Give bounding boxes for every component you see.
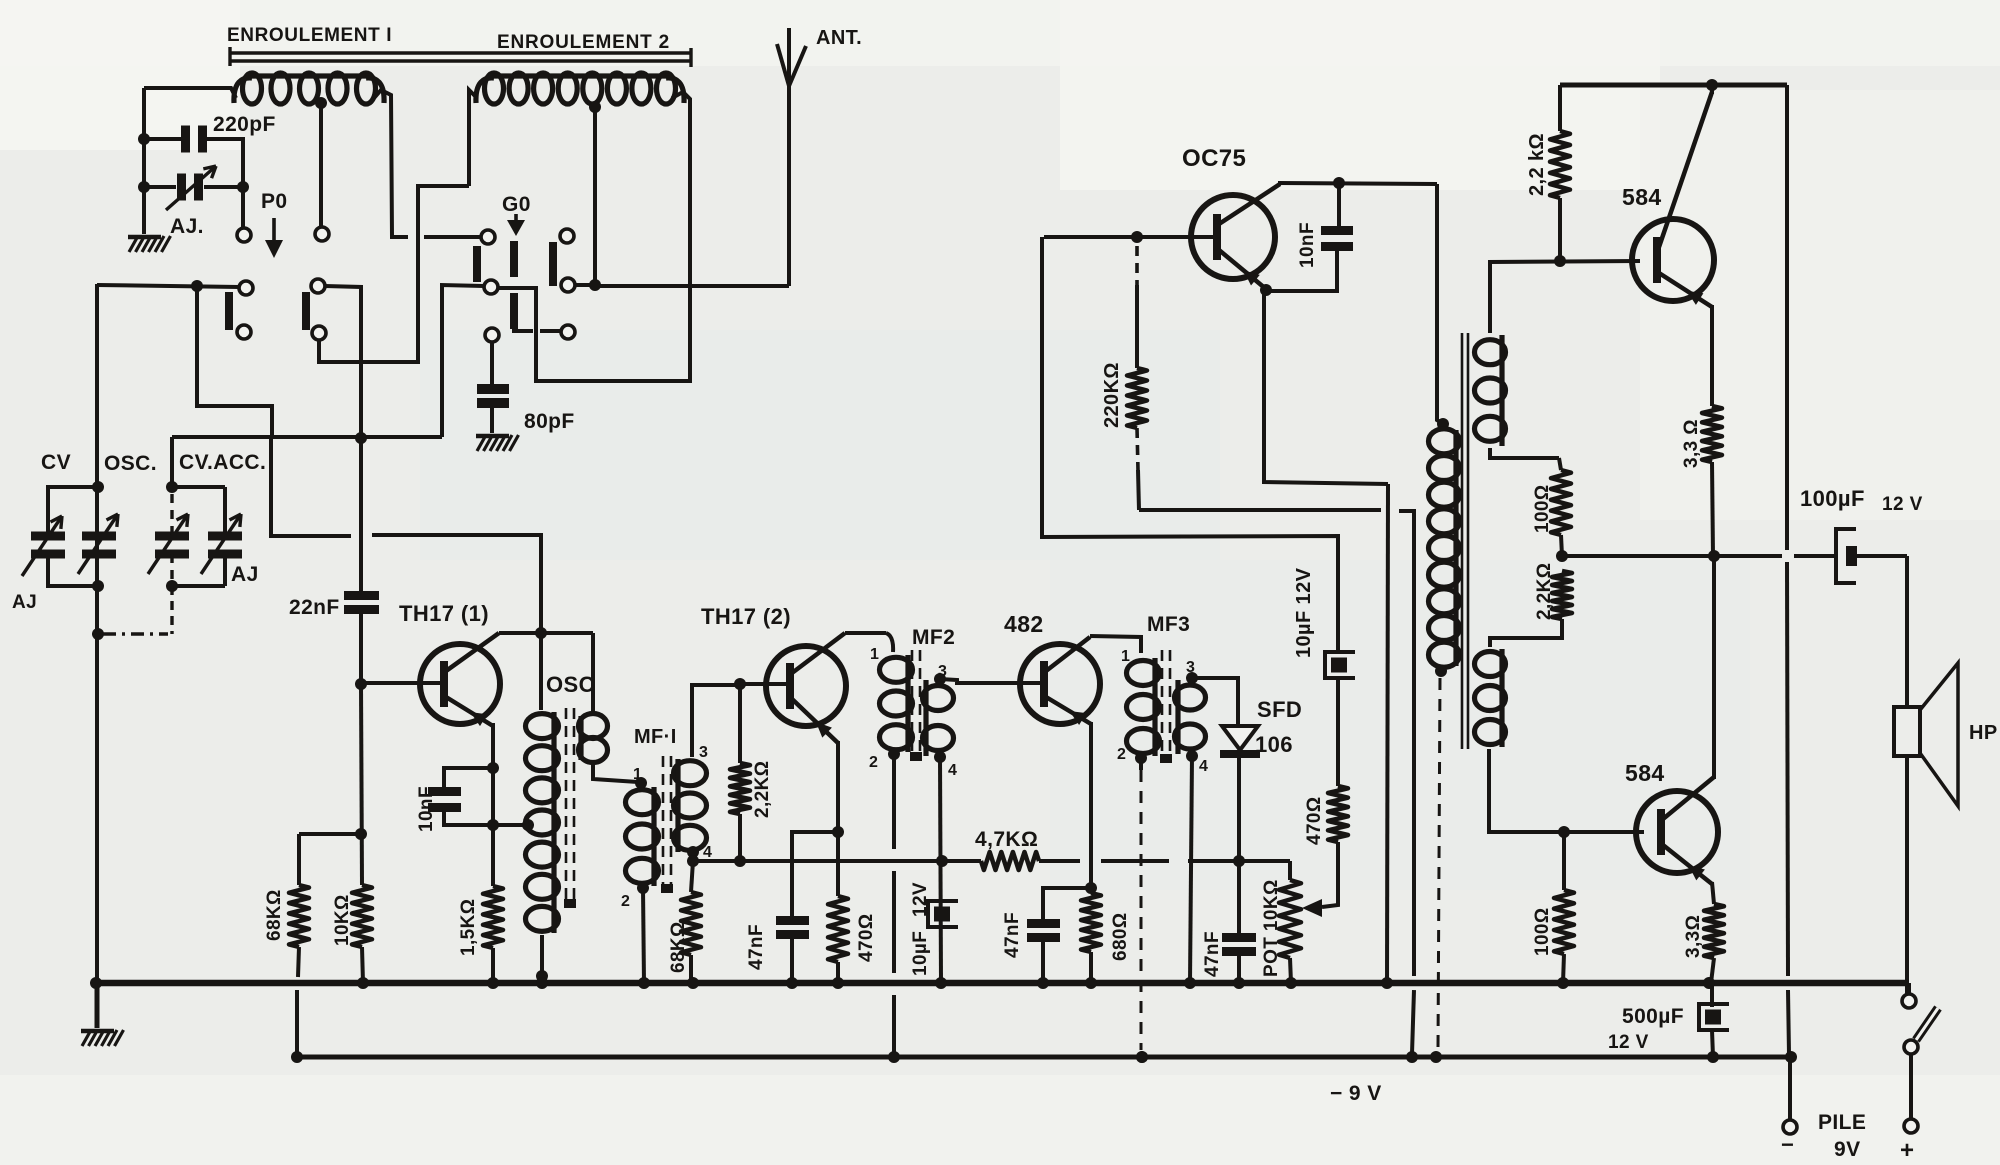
- svg-text:4: 4: [703, 844, 712, 861]
- ferrite rod: [229, 51, 690, 55]
- svg-text:106: 106: [1255, 732, 1293, 757]
- junctions rail2: [291, 1051, 303, 1063]
- wire 22nF to base: [359, 614, 363, 684]
- svg-text:470Ω: 470Ω: [1304, 796, 1325, 845]
- resistor 4,7K: [981, 852, 1039, 870]
- switch GO contact 1: [481, 230, 495, 244]
- resistor 3,3 (top): [1702, 406, 1722, 462]
- svg-text:12V: 12V: [910, 882, 931, 917]
- switch GO contact 3: [484, 280, 498, 294]
- terminal switch pivot: [1904, 1040, 1918, 1054]
- terminal PILE plus: [1904, 1119, 1918, 1133]
- switch GO contact 4: [561, 278, 575, 292]
- wire TH17(2) collector: [845, 631, 886, 635]
- wire 482 emitter: [1089, 722, 1093, 888]
- arrow CV: [22, 516, 62, 576]
- wire OSC sec to MF1 pin1: [593, 762, 637, 782]
- variable capacitor OSC: [82, 532, 116, 541]
- svg-text:MF2: MF2: [912, 626, 955, 649]
- wire coil L1 right end: [374, 90, 408, 237]
- svg-text:MF·I: MF·I: [634, 726, 677, 748]
- wire OC75 collector top: [1278, 183, 1437, 184]
- svg-text:4,7KΩ: 4,7KΩ: [975, 828, 1038, 851]
- resistor 220K: [1135, 246, 1139, 285]
- switch PO contact 3: [239, 281, 253, 295]
- wire rail1 (ground): [96, 980, 1909, 987]
- resistor 470 (1): [836, 832, 840, 896]
- transformer MF1 core: [662, 756, 665, 888]
- wire 584t collector: [1710, 85, 1714, 94]
- resistor 10K: [361, 684, 362, 885]
- coil L2 ENROULEMENT 2: [485, 73, 504, 104]
- switch GO contact 2: [560, 229, 574, 243]
- transformer driver primary: [1437, 418, 1449, 430]
- wire TH17(1) base: [361, 681, 441, 685]
- svg-text:− 9 V: − 9 V: [1330, 1082, 1382, 1105]
- svg-text:SFD: SFD: [1257, 697, 1302, 722]
- antenna riser: [787, 28, 791, 286]
- wire TH17(2) emitter: [836, 741, 840, 832]
- wire OC75 base: [1044, 235, 1214, 239]
- svg-text:MF3: MF3: [1147, 613, 1190, 636]
- wire sec-bottom to 584(2) base: [1489, 749, 1644, 832]
- ground (main rail): [95, 983, 100, 1028]
- wire MF2 pin3 to 482 base: [934, 673, 946, 685]
- switch GO bar right: [549, 242, 557, 286]
- wire CV.ACC bracket: [170, 485, 225, 489]
- svg-text:12 V: 12 V: [1608, 1032, 1649, 1053]
- wire collector to MF2 pin1: [886, 633, 893, 652]
- transistor OC75: [1191, 195, 1275, 279]
- wire CV.ACC riser: [170, 437, 174, 489]
- transformer OSC core: [565, 708, 568, 903]
- wire MF3 pin2 dashline: [1135, 752, 1147, 764]
- svg-text:2,2KΩ: 2,2KΩ: [752, 761, 773, 818]
- capacitor 500uF 12V: [1710, 983, 1714, 1007]
- svg-text:TH17 (1): TH17 (1): [399, 601, 489, 626]
- wire to PILE minus: [1788, 1054, 1792, 1120]
- transformer OSC primary: [526, 714, 559, 739]
- resistor 470 (2): [1328, 786, 1348, 842]
- wire 220pF right: [206, 137, 245, 141]
- svg-text:470Ω: 470Ω: [856, 913, 877, 962]
- switch GO bar left: [473, 246, 481, 282]
- wire 482 collector: [1090, 636, 1141, 653]
- resistor 100 (1): [1559, 458, 1561, 470]
- svg-text:680Ω: 680Ω: [1110, 912, 1131, 961]
- capacitor 47nF (1): [776, 916, 809, 925]
- wire 584b emitter: [1712, 882, 1714, 904]
- capacitor 10uF 12V (agc): [1325, 652, 1355, 678]
- svg-text:584: 584: [1625, 760, 1665, 786]
- svg-text:HP: HP: [1969, 722, 1998, 744]
- svg-text:3,3Ω: 3,3Ω: [1683, 915, 1704, 958]
- transistor TH17(2): [766, 646, 846, 726]
- svg-text:9V: 9V: [1834, 1138, 1861, 1161]
- svg-text:10nF: 10nF: [1297, 222, 1318, 268]
- svg-text:68KΩ: 68KΩ: [264, 889, 285, 941]
- terminal PILE minus: [1783, 1120, 1797, 1134]
- svg-text:4: 4: [1199, 758, 1208, 775]
- svg-text:2,2 kΩ: 2,2 kΩ: [1526, 133, 1548, 196]
- switch blade: [1916, 1008, 1938, 1040]
- capacitor 80pF: [477, 384, 509, 394]
- wire top rail -9V: [1560, 83, 1787, 88]
- svg-text:AJ: AJ: [231, 563, 259, 586]
- wire emitter to rail1: [1387, 484, 1388, 983]
- wire 220K to -9V: [1139, 508, 1381, 512]
- switch GO contact 5: [485, 328, 499, 342]
- wire ground stem left: [142, 88, 146, 234]
- wire collector to driver primary: [1437, 184, 1443, 424]
- wire -9V feed: [1785, 85, 1789, 550]
- wire sec-top bottom to 100ohm: [1490, 448, 1559, 458]
- wire MF1 pin3 to TH17(2) base: [692, 685, 737, 757]
- arrow CV.ACC: [148, 514, 188, 574]
- svg-text:ENROULEMENT I: ENROULEMENT I: [227, 25, 392, 46]
- wire GO mid-right to node: [576, 283, 597, 287]
- svg-text:68KΩ: 68KΩ: [668, 921, 689, 973]
- wire mid-rail to 584(2) collector: [1712, 556, 1716, 779]
- switch GO contact 6: [561, 325, 575, 339]
- wire main tuning line: [95, 284, 99, 983]
- capacitor 47nF (2): [1043, 888, 1091, 919]
- svg-text:TH17 (2): TH17 (2): [701, 604, 791, 629]
- svg-text:12 V: 12 V: [1882, 494, 1923, 515]
- trimmer AJ.: [177, 174, 186, 201]
- switch PO bar left: [225, 292, 233, 330]
- wire node A horizontal: [172, 435, 442, 439]
- svg-text:100Ω: 100Ω: [1532, 907, 1553, 956]
- wire PO mid-right down: [325, 286, 361, 437]
- wire rail2 (-9V): [297, 1055, 1793, 1060]
- wire 10uF to 470: [1336, 678, 1340, 786]
- wire coil L1 left end to ground line: [144, 88, 236, 98]
- junctions rail1: [90, 977, 102, 989]
- wire 10nF top bracket: [444, 768, 493, 787]
- switch GO stub right-bottom: [540, 329, 560, 333]
- wire OC75 emitter: [1260, 284, 1272, 296]
- svg-text:AJ: AJ: [12, 592, 37, 613]
- transistor TH17(1): [420, 644, 500, 724]
- resistor 2,2k (top): [1558, 85, 1562, 131]
- wire AJ left: [144, 185, 176, 189]
- wire MF2 pin2 down: [888, 748, 900, 760]
- wire TH17(1) emitter: [491, 723, 495, 886]
- coil L1 ENROULEMENT 1: [243, 73, 262, 104]
- transistor 482: [1020, 644, 1100, 724]
- wire MF1 pin4 down: [687, 846, 699, 858]
- transistor 584 top: [1632, 219, 1714, 301]
- switch GO bar mid: [510, 241, 518, 277]
- wire driver primary bottom: [1435, 665, 1447, 677]
- transformer MF3 secondary: [1175, 685, 1206, 710]
- transformer OSC secondary: [579, 714, 608, 739]
- svg-text:10µF 12V: 10µF 12V: [1293, 567, 1315, 658]
- svg-text:10nF: 10nF: [416, 786, 437, 832]
- svg-text:ANT.: ANT.: [816, 27, 862, 49]
- svg-text:POT 10KΩ: POT 10KΩ: [1261, 879, 1282, 977]
- svg-text:100Ω: 100Ω: [1532, 484, 1553, 533]
- speaker HP: [1894, 707, 1920, 756]
- svg-text:220pF: 220pF: [213, 113, 276, 136]
- arrow GO: [514, 214, 518, 226]
- svg-text:482: 482: [1004, 611, 1044, 637]
- wire TH17(2) base: [737, 682, 787, 686]
- wire 10nF bottom bracket: [444, 812, 528, 825]
- svg-text:3,3 Ω: 3,3 Ω: [1681, 419, 1702, 468]
- wire emitter branch left: [792, 832, 838, 916]
- antenna arms: [777, 44, 789, 86]
- wire T to oscillator feedback: [271, 437, 351, 536]
- capacitor 22nF: [359, 287, 363, 591]
- wire coil L2 tap: [589, 101, 601, 113]
- terminal switch top: [1902, 994, 1916, 1008]
- wire 47nF(1) to rail: [790, 939, 794, 983]
- wire 584b collector diag: [1712, 770, 1716, 779]
- arrow PO: [272, 218, 276, 248]
- wire switch to plus: [1909, 1054, 1913, 1119]
- wire rail1 to switch: [1907, 983, 1911, 994]
- svg-text:80pF: 80pF: [524, 410, 575, 433]
- switch PO contact 1: [237, 228, 251, 242]
- svg-text:ENROULEMENT 2: ENROULEMENT 2: [497, 32, 670, 53]
- wire coil L2 right end: [498, 92, 690, 381]
- transformer MF2 secondary: [923, 686, 954, 711]
- arrow OSC: [78, 514, 118, 574]
- svg-text:P0: P0: [261, 190, 288, 213]
- wire 584t emitter: [1710, 305, 1714, 406]
- resistor 3,3 (bottom): [1704, 904, 1724, 958]
- resistor 1,5K: [483, 886, 503, 948]
- svg-text:584: 584: [1622, 184, 1662, 210]
- svg-text:PILE: PILE: [1818, 1111, 1866, 1134]
- svg-text:1: 1: [1121, 648, 1130, 665]
- variable capacitor CV.ACC: [155, 532, 189, 541]
- wire MF3 pin4 down: [1186, 750, 1198, 762]
- svg-text:1: 1: [633, 766, 642, 783]
- svg-text:2: 2: [1117, 746, 1126, 763]
- resistor 68K (2): [691, 861, 693, 892]
- trimmer AJ (acc): [208, 532, 242, 541]
- wire MF1 pin2 down: [637, 882, 649, 894]
- svg-text:10µF: 10µF: [910, 931, 931, 976]
- wire node A to GO mid-left: [442, 285, 484, 437]
- svg-text:3: 3: [699, 744, 708, 761]
- wire collector to OSC primary: [591, 633, 595, 714]
- switch PO contact 6: [312, 326, 326, 340]
- svg-text:100µF: 100µF: [1800, 486, 1865, 511]
- svg-text:OSC.: OSC.: [104, 452, 157, 475]
- wire PO junction down: [197, 286, 272, 437]
- svg-text:220KΩ: 220KΩ: [1101, 362, 1123, 428]
- wire sec-top top to 584 base: [1490, 261, 1640, 333]
- wire OSC primary bottom: [540, 935, 544, 983]
- svg-text:−: −: [1781, 1132, 1794, 1157]
- svg-text:+: +: [1900, 1137, 1914, 1164]
- capacitor 10nF (2): [1337, 183, 1341, 226]
- wire MF2 pin4 down: [934, 751, 946, 763]
- potentiometer POT 10K: [1288, 861, 1292, 880]
- resistor 2,2K (out): [1552, 571, 1572, 619]
- wire 80pF to ground: [490, 408, 494, 433]
- wire 220pF left: [144, 137, 183, 141]
- svg-text:AJ.: AJ.: [170, 215, 204, 238]
- ground (80pF): [477, 435, 486, 451]
- wire OC75 base AGC line: [1042, 237, 1338, 654]
- svg-text:2: 2: [869, 754, 878, 771]
- resistor 2,2K IF: [738, 684, 742, 763]
- wire L2-left to switch: [319, 186, 469, 362]
- svg-text:1: 1: [870, 646, 879, 663]
- gang dash-dot link: [103, 632, 168, 635]
- wire TH17(1) collector: [499, 631, 593, 635]
- wire antenna feed: [595, 284, 789, 288]
- resistor 680: [1081, 893, 1101, 952]
- svg-text:OC75: OC75: [1182, 145, 1246, 172]
- wire MF3 pin3 to diode: [1186, 672, 1198, 684]
- transformer MF1 secondary: [674, 761, 707, 786]
- transformer MF3 primary: [1127, 661, 1160, 686]
- wire to speaker: [1905, 556, 1909, 707]
- svg-text:2,2KΩ: 2,2KΩ: [1534, 563, 1555, 620]
- svg-text:G0: G0: [502, 193, 531, 216]
- svg-text:4: 4: [948, 762, 957, 779]
- transformer driver sec top: [1475, 340, 1506, 365]
- ground (aerial coil): [129, 236, 138, 252]
- transistor 584 bottom: [1636, 791, 1718, 873]
- variable capacitor CV: [31, 532, 65, 541]
- arrow AJ trimmer: [166, 166, 216, 210]
- svg-text:47nF: 47nF: [746, 924, 767, 970]
- wire to PO contact: [241, 187, 245, 228]
- wire audio bus: [693, 859, 981, 863]
- switch PO bar right: [302, 292, 310, 330]
- capacitor 47nF (3): [1237, 861, 1241, 933]
- wire diode to volume node: [1237, 758, 1241, 861]
- svg-text:22nF: 22nF: [289, 596, 340, 619]
- wire coil L2 left end: [469, 90, 476, 186]
- capacitor 10uF 12V (det): [928, 901, 958, 927]
- svg-text:2: 2: [621, 893, 630, 910]
- arrow AJ acc: [201, 514, 241, 574]
- wire AJ right: [204, 185, 243, 189]
- resistor 100 (2): [1562, 832, 1566, 890]
- transformer MF2 primary: [880, 657, 913, 682]
- svg-text:CV: CV: [41, 451, 71, 474]
- wire CV bracket: [46, 485, 98, 489]
- transformer driver core: [1461, 333, 1464, 749]
- resistor 68K (1): [299, 832, 361, 836]
- capacitor 10nF (osc): [428, 787, 461, 796]
- capacitor 100uF 12V: [1836, 529, 1856, 583]
- switch PO contact 5: [237, 325, 251, 339]
- transformer MF2 core: [911, 650, 914, 756]
- arrow to POT wiper: [1302, 899, 1322, 917]
- switch PO contact 4: [311, 279, 325, 293]
- svg-text:500µF: 500µF: [1622, 1005, 1684, 1028]
- transformer MF3 core: [1161, 650, 1164, 758]
- svg-text:47nF: 47nF: [1202, 931, 1223, 977]
- wire GO bottom-left to 80pF: [490, 342, 494, 384]
- wire output mid-rail: [1562, 554, 1782, 558]
- switch PO contact 2: [315, 227, 329, 241]
- diode SFD106: [1222, 726, 1258, 750]
- svg-text:CV.ACC.: CV.ACC.: [179, 451, 266, 474]
- transformer MF1 primary: [635, 777, 647, 789]
- wire PO mid-left feed: [97, 285, 239, 287]
- svg-text:47nF: 47nF: [1002, 912, 1023, 958]
- capacitor 220pF: [181, 126, 190, 153]
- wire coil L1 tap: [315, 97, 327, 109]
- svg-text:10KΩ: 10KΩ: [332, 894, 353, 946]
- wire speaker down: [1905, 756, 1909, 994]
- transformer driver sec bottom: [1475, 652, 1506, 677]
- wire feedback cont.: [372, 535, 541, 710]
- svg-text:OSC: OSC: [546, 672, 595, 697]
- svg-text:1,5KΩ: 1,5KΩ: [458, 899, 479, 956]
